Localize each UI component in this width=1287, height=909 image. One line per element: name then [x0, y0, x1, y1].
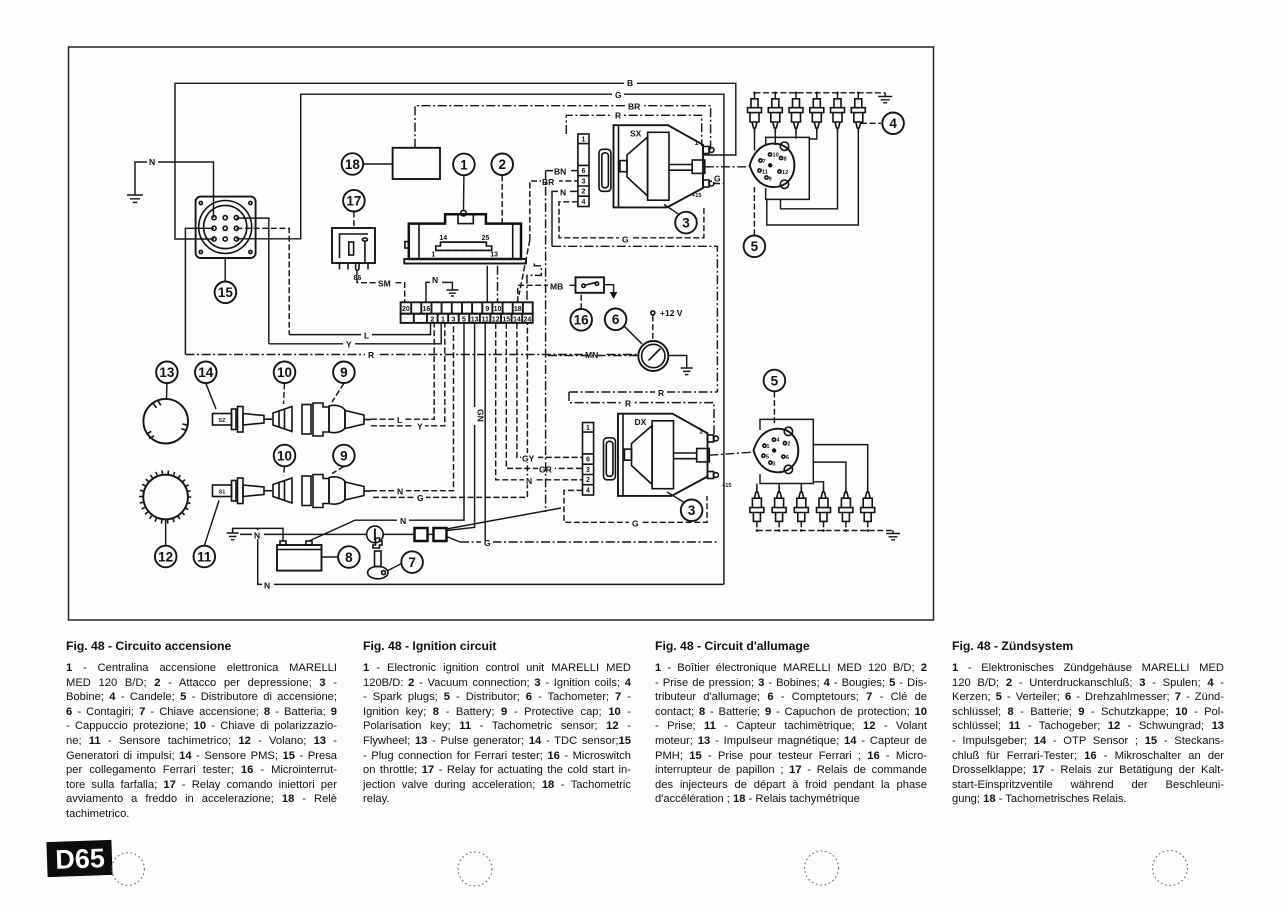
svg-text:11: 11 — [197, 549, 212, 564]
item circle 7 — [401, 551, 423, 573]
svg-text:2: 2 — [498, 157, 506, 172]
wire BN diagonal from squares — [447, 537, 461, 543]
item circle 9 (upper) — [333, 362, 355, 384]
node L label — [361, 330, 372, 339]
svg-text:G: G — [417, 493, 424, 503]
punch hole 2 — [458, 852, 492, 886]
DX coil HT terminal — [697, 449, 710, 462]
svg-text:3: 3 — [688, 503, 696, 518]
item circle 13 leader — [166, 383, 168, 398]
svg-text:SX: SX — [630, 129, 642, 139]
svg-text:17: 17 — [346, 194, 361, 209]
svg-text:8: 8 — [784, 157, 787, 163]
ECU connector detail — [436, 242, 492, 250]
SX coil core — [648, 132, 669, 200]
TDC sensor 14 (SZ) — [213, 407, 273, 433]
svg-text:R: R — [368, 350, 374, 360]
svg-text:9: 9 — [769, 177, 772, 183]
wire HT to distributor DX — [709, 452, 755, 455]
microswitch 16 contacts — [582, 284, 585, 287]
svg-text:14: 14 — [513, 316, 521, 323]
spark plugs DX bank (pointing up) — [750, 487, 875, 521]
item circle 10 leader (upper) — [284, 383, 285, 404]
DX distributor cap — [754, 429, 799, 473]
item circle 17 leader — [353, 212, 355, 229]
svg-text:BR: BR — [542, 177, 554, 187]
svg-text:20: 20 — [402, 306, 410, 313]
svg-text:9: 9 — [340, 448, 348, 463]
battery 8 — [277, 545, 322, 571]
svg-text:3: 3 — [452, 316, 456, 323]
DX plug bus junction dots — [756, 529, 869, 532]
svg-text:N: N — [254, 531, 260, 541]
wire ECU to strip cell 9 — [486, 266, 488, 303]
svg-text:D65: D65 — [55, 843, 106, 875]
svg-text:8: 8 — [345, 550, 353, 565]
DX coil left plate — [604, 438, 616, 480]
main connector strip row 2 — [401, 314, 533, 323]
spark plugs SX bank — [748, 99, 866, 133]
svg-text:10: 10 — [494, 306, 502, 313]
svg-text:5: 5 — [766, 455, 769, 461]
svg-text:15: 15 — [218, 285, 234, 300]
wire SM relay to strip cell 20 — [357, 270, 405, 303]
node GN label (vertical) — [470, 407, 480, 425]
svg-text:3: 3 — [586, 467, 590, 474]
connector 15 pins 1-9 — [212, 216, 239, 242]
svg-text:25: 25 — [482, 235, 490, 242]
svg-text:N: N — [397, 487, 403, 497]
wire G top loop (pin9 up and right, long right vertical) — [236, 94, 724, 584]
svg-text:DX: DX — [635, 417, 647, 427]
SX column pin numbers — [582, 137, 586, 206]
DX coil core — [652, 421, 673, 489]
ignition key 7 — [368, 538, 388, 579]
wire GY to DX coil box 6 — [517, 323, 583, 458]
svg-text:1: 1 — [699, 429, 703, 436]
wire ECU to strip cell 10 (dash-dot) — [497, 266, 499, 303]
item circle 2 leader — [501, 175, 503, 223]
wire R dash into DX coil — [569, 392, 716, 439]
svg-text:4: 4 — [582, 199, 586, 206]
item circle 4 leader — [861, 122, 881, 124]
connector 15 plate — [196, 197, 256, 258]
svg-text:6: 6 — [582, 168, 586, 175]
item circle 15 — [215, 282, 237, 304]
svg-text:+15: +15 — [692, 193, 702, 199]
wire MN dash to tachometer — [548, 355, 638, 357]
svg-text:13: 13 — [471, 316, 479, 323]
svg-text:5: 5 — [771, 373, 779, 388]
item circle 18 leader — [363, 163, 392, 165]
connector 15 outer ring — [199, 201, 252, 254]
ground spark plugs DX — [892, 531, 894, 534]
svg-text:1: 1 — [695, 140, 699, 147]
item circle 14 — [195, 362, 217, 384]
pulse generator disc 13 — [143, 399, 188, 444]
tachometric relay box 18 — [393, 148, 440, 179]
DX coil connector column — [583, 423, 594, 496]
wire G return DX below coil — [564, 490, 707, 522]
svg-text:18: 18 — [345, 157, 361, 172]
wire N to SX box 2 — [552, 191, 578, 246]
wire L (pin6 right then down to strip) — [236, 228, 289, 334]
svg-text:BR: BR — [628, 102, 640, 112]
wire R dash-dot top (to SX coil box 1) — [566, 115, 701, 146]
svg-text:9: 9 — [340, 365, 348, 380]
svg-text:1: 1 — [582, 137, 586, 144]
svg-text:10: 10 — [277, 448, 292, 463]
main connector strip row 1 — [401, 302, 533, 313]
SX ignition coil 3 body — [614, 125, 704, 207]
item circle 5 leader (SX) — [753, 187, 755, 235]
svg-text:L: L — [364, 331, 369, 341]
svg-text:N: N — [264, 580, 270, 590]
svg-text:14: 14 — [198, 365, 214, 380]
svg-text:N: N — [432, 275, 438, 285]
tester connector square A — [415, 528, 428, 541]
item circle 3 (SX) — [675, 212, 697, 234]
wire R (pin4 left, down, long dash across middle) — [185, 228, 214, 354]
wire MB strip cell 18 to microswitch — [518, 285, 576, 302]
wire Y (pin3 right then down to strip) — [236, 218, 268, 344]
wire BR dash-dot from relay 18 top — [415, 106, 711, 150]
spark plug bus junction dots — [753, 92, 859, 95]
DX distributor contacts — [762, 438, 787, 464]
node B label — [624, 78, 637, 87]
item circle 3 leader (SX) — [664, 205, 678, 214]
SX coil connector column — [578, 134, 589, 207]
wire Y from sensor 14 — [371, 323, 445, 426]
spark plug top bus SX — [755, 93, 886, 99]
svg-text:11: 11 — [762, 170, 768, 176]
wire BN to SX box 6 — [546, 170, 578, 172]
connector 15 screw holes — [199, 201, 202, 204]
item circle 8 leader — [322, 556, 339, 558]
wire dash-dot right side to DX R — [552, 246, 717, 392]
item circle 12 — [155, 546, 177, 568]
wire G low (strip cell 11 down) — [484, 323, 486, 542]
battery terminal + — [280, 541, 286, 545]
svg-text:2: 2 — [430, 316, 434, 323]
svg-text:12: 12 — [158, 549, 173, 564]
item circle 5 (SX) — [744, 236, 766, 258]
caption column French — [655, 639, 927, 807]
item circle 10 (upper) — [274, 362, 296, 384]
svg-text:3: 3 — [772, 462, 775, 468]
svg-text:4: 4 — [586, 487, 590, 494]
svg-text:1: 1 — [460, 157, 468, 172]
protective cap 10 (upper row) — [273, 407, 292, 432]
wire BR to SX box 3 — [530, 181, 578, 240]
DX distributor wire loop — [760, 419, 813, 483]
svg-text:6: 6 — [586, 457, 590, 464]
item circle 16 — [570, 309, 592, 331]
svg-text:12: 12 — [782, 170, 788, 176]
svg-text:GY: GY — [522, 453, 535, 463]
item circle 6 leader — [624, 326, 642, 344]
strip row 2 numbers — [430, 316, 531, 323]
item circle 1 leader — [463, 175, 465, 210]
svg-text:N: N — [560, 187, 566, 197]
svg-text:MB: MB — [550, 282, 563, 292]
svg-text:SZ: SZ — [218, 418, 226, 424]
tester connector square B — [434, 528, 447, 541]
svg-text:2: 2 — [787, 442, 790, 448]
svg-text:5: 5 — [751, 239, 759, 254]
polarisation connector 9 (lower row) — [302, 475, 371, 508]
SX distributor contacts — [758, 153, 783, 179]
svg-text:N: N — [526, 476, 532, 486]
wire N battery positive to strip (cell 5) — [309, 323, 464, 541]
svg-text:R: R — [615, 111, 621, 121]
item circle 14 leader — [206, 383, 216, 409]
microswitch 16 box — [576, 277, 605, 293]
node MN label — [583, 350, 604, 359]
schematic outer frame — [69, 47, 934, 620]
wire G bottom dash run — [460, 541, 717, 543]
SX distributor wire loop — [766, 137, 810, 199]
wire GN diagonal from squares — [447, 323, 475, 531]
svg-text:18: 18 — [514, 306, 522, 313]
protective cap 10 (lower row) — [273, 478, 292, 503]
svg-text:14: 14 — [439, 235, 447, 242]
ECU base strip — [404, 259, 526, 264]
ground spark plugs SX — [884, 93, 886, 97]
wires DX loop to right plugs — [813, 445, 867, 488]
relay 17 pins — [339, 263, 341, 270]
svg-text:3: 3 — [582, 178, 586, 185]
item circle 11 leader — [204, 501, 219, 546]
svg-text:4: 4 — [776, 438, 780, 444]
wire HT to distributor SX — [705, 166, 751, 168]
svg-text:4: 4 — [889, 116, 897, 131]
DX coil terminal 15 — [708, 472, 714, 479]
item circle 18 — [342, 153, 364, 175]
wire L from sensor 14 — [371, 323, 434, 419]
item circle 10 leader (lower) — [284, 467, 285, 476]
svg-text:2: 2 — [586, 477, 590, 484]
punch hole 1 — [112, 853, 145, 886]
svg-text:+12 V: +12 V — [660, 308, 683, 318]
item circle 1 — [453, 154, 475, 176]
caption column Italian — [66, 639, 337, 822]
wire stubs joining comb — [545, 171, 547, 512]
ECU inner walls — [418, 224, 420, 259]
wire N to DX coil box 2 — [496, 323, 583, 480]
svg-text:10: 10 — [773, 153, 779, 159]
svg-text:SM: SM — [378, 279, 391, 289]
caption column English — [363, 639, 631, 807]
tachometric sensor 11 (S1) — [213, 478, 273, 504]
item circle 16 leader — [580, 294, 582, 310]
battery terminal - — [306, 541, 312, 545]
svg-text:11: 11 — [481, 316, 489, 323]
wire G from terminal 15 — [714, 183, 724, 185]
svg-text:7: 7 — [763, 159, 766, 165]
ECU control unit 1 outline — [409, 214, 521, 259]
relay 17 internals — [340, 234, 369, 258]
item circle 2 — [491, 154, 513, 176]
polarisation connector 9 (upper row) — [302, 403, 371, 436]
ECU top screw — [458, 214, 473, 223]
svg-text:G: G — [615, 90, 622, 100]
SX coil terminal 1 — [703, 147, 709, 154]
item circle 7 leader — [388, 564, 402, 571]
wire tester plug links — [383, 533, 414, 535]
svg-text:N: N — [149, 157, 155, 167]
svg-text:GN: GN — [476, 409, 486, 422]
svg-text:16: 16 — [574, 313, 590, 328]
punch hole 3 — [805, 851, 839, 885]
item circle 8 — [338, 546, 360, 568]
wire G from sensor 11 — [373, 323, 527, 498]
item circle 13 — [156, 362, 178, 384]
wire ECU stepped to strip right — [527, 264, 541, 303]
svg-text:R: R — [658, 388, 664, 398]
item circle 9 (lower) — [333, 445, 355, 467]
item circle 10 (lower) — [274, 445, 296, 467]
item circle 5 leader (DX) — [773, 392, 775, 426]
tester plug symbol (item 15 wire) — [367, 526, 384, 543]
svg-text:2: 2 — [582, 189, 586, 196]
item circle 5 (DX) — [764, 370, 786, 392]
+12V terminal — [651, 311, 655, 315]
svg-text:7: 7 — [408, 555, 416, 570]
spark plug bottom bus DX — [757, 521, 893, 530]
svg-text:16: 16 — [423, 306, 431, 313]
item circle 3 leader (DX) — [667, 492, 684, 502]
svg-text:Y: Y — [417, 422, 423, 432]
svg-text:+15: +15 — [722, 483, 732, 489]
svg-text:1: 1 — [766, 444, 769, 450]
ECU left vacuum notch — [405, 242, 409, 248]
svg-text:B: B — [627, 78, 633, 88]
svg-text:R: R — [625, 399, 631, 409]
svg-text:10: 10 — [277, 365, 292, 380]
wire G return dash below SX coil — [559, 202, 704, 238]
wire N ground above strip cell 16 — [426, 282, 452, 302]
svg-text:6: 6 — [612, 312, 620, 327]
wire N to tester plug — [240, 533, 367, 535]
item circle 6 — [605, 309, 627, 331]
item circle 4 — [882, 113, 904, 135]
page tab D65 — [46, 840, 112, 877]
wire N from sensor 11 — [371, 323, 454, 491]
cold start relay 17 box — [332, 228, 375, 263]
svg-text:13: 13 — [159, 365, 175, 380]
wire GR to DX coil box 3 — [506, 323, 582, 469]
wires plugs SX to distributor — [754, 133, 756, 151]
wires DX plugs up to distributor loop — [756, 484, 758, 488]
svg-text:12: 12 — [492, 316, 500, 323]
item circle 9 leader (lower) — [332, 467, 344, 474]
ground near battery — [233, 528, 283, 541]
svg-text:1: 1 — [441, 316, 445, 323]
tachometer 6 — [638, 341, 668, 371]
strip row 1 numbers — [402, 306, 522, 313]
item circle 15 leader — [224, 258, 226, 282]
DX column pin numbers — [586, 425, 590, 494]
svg-text:N: N — [400, 516, 406, 526]
item circle 12 leader — [165, 519, 167, 545]
svg-text:BN: BN — [554, 167, 566, 177]
svg-text:5: 5 — [462, 316, 466, 323]
svg-text:1: 1 — [586, 425, 590, 432]
tachometer ground — [668, 356, 686, 369]
item circle 3 (DX) — [681, 500, 703, 522]
item circle 17 — [343, 190, 365, 212]
wire N battery negative bottom run — [258, 528, 724, 584]
svg-text:1: 1 — [431, 251, 435, 258]
svg-text:Y: Y — [346, 340, 352, 350]
DX ignition coil 3 body — [618, 414, 708, 496]
caption column German — [952, 639, 1224, 807]
svg-text:G: G — [714, 174, 721, 184]
SX coil HT terminal — [692, 160, 705, 173]
flywheel disc 12 — [143, 475, 188, 520]
node Y label — [343, 339, 355, 348]
svg-text:G: G — [622, 235, 629, 245]
svg-text:3: 3 — [682, 216, 690, 231]
wire B top loop (pin7 to SX coil term 1) — [175, 83, 736, 239]
svg-text:13: 13 — [490, 252, 498, 259]
SX distributor cap — [750, 144, 795, 188]
svg-text:15: 15 — [502, 316, 510, 323]
connector 15 keyed ring — [204, 205, 247, 248]
svg-text:G: G — [632, 518, 639, 528]
wire R dash to DX area — [569, 391, 717, 393]
microswitch output arrow — [604, 285, 614, 292]
svg-text:6: 6 — [786, 455, 789, 461]
svg-text:L: L — [397, 415, 402, 425]
item circle 9 leader (upper) — [332, 383, 344, 402]
svg-text:9: 9 — [485, 306, 489, 313]
node G label — [612, 90, 624, 99]
punch hole 4 — [1153, 851, 1188, 886]
item circle 11 — [194, 546, 216, 568]
SX coil left plate — [599, 149, 611, 191]
svg-text:24: 24 — [524, 316, 532, 323]
svg-text:S1: S1 — [219, 489, 226, 495]
DX coil terminal 1 — [708, 435, 714, 442]
node N label — [147, 156, 158, 165]
SX coil terminal 15 — [703, 180, 709, 187]
node R label — [365, 350, 377, 359]
ground N (left, near connector 15) — [135, 162, 214, 218]
